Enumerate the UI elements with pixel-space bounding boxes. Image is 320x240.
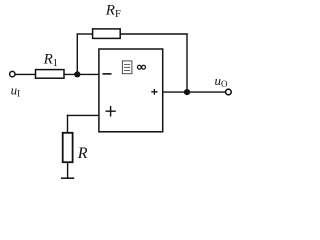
- wire feedback down to output node: [186, 33, 188, 92]
- wire junction up to feedback: [76, 33, 78, 74]
- wire feedback left segment: [77, 33, 93, 35]
- wire R1 to op-amp inverting input: [64, 73, 99, 75]
- wire down to resistor R: [67, 115, 69, 133]
- output node junction dot: [184, 89, 190, 95]
- node A junction dot: [74, 71, 80, 77]
- wire feedback right segment: [120, 33, 188, 35]
- infinity gain symbol: [138, 65, 146, 69]
- svg-text:R: R: [77, 145, 88, 162]
- input terminal u_I: [10, 71, 15, 76]
- resistor R: [63, 133, 73, 162]
- resistor RF: [93, 29, 121, 39]
- wire output: [163, 91, 226, 93]
- wire input to R1: [15, 73, 35, 75]
- ground: [61, 177, 74, 179]
- op-amp minus input marker: [103, 73, 112, 75]
- wire op-amp noninverting input to R: [67, 114, 99, 116]
- op-amp output plus marker: [151, 89, 157, 95]
- op-amp plus input marker: [106, 106, 116, 117]
- output terminal u_O: [226, 89, 232, 95]
- resistor R1: [36, 70, 65, 79]
- missing-glyph box inside op-amp: [122, 61, 131, 74]
- op-amp U1 body: [99, 49, 163, 132]
- wire R to ground: [67, 162, 69, 178]
